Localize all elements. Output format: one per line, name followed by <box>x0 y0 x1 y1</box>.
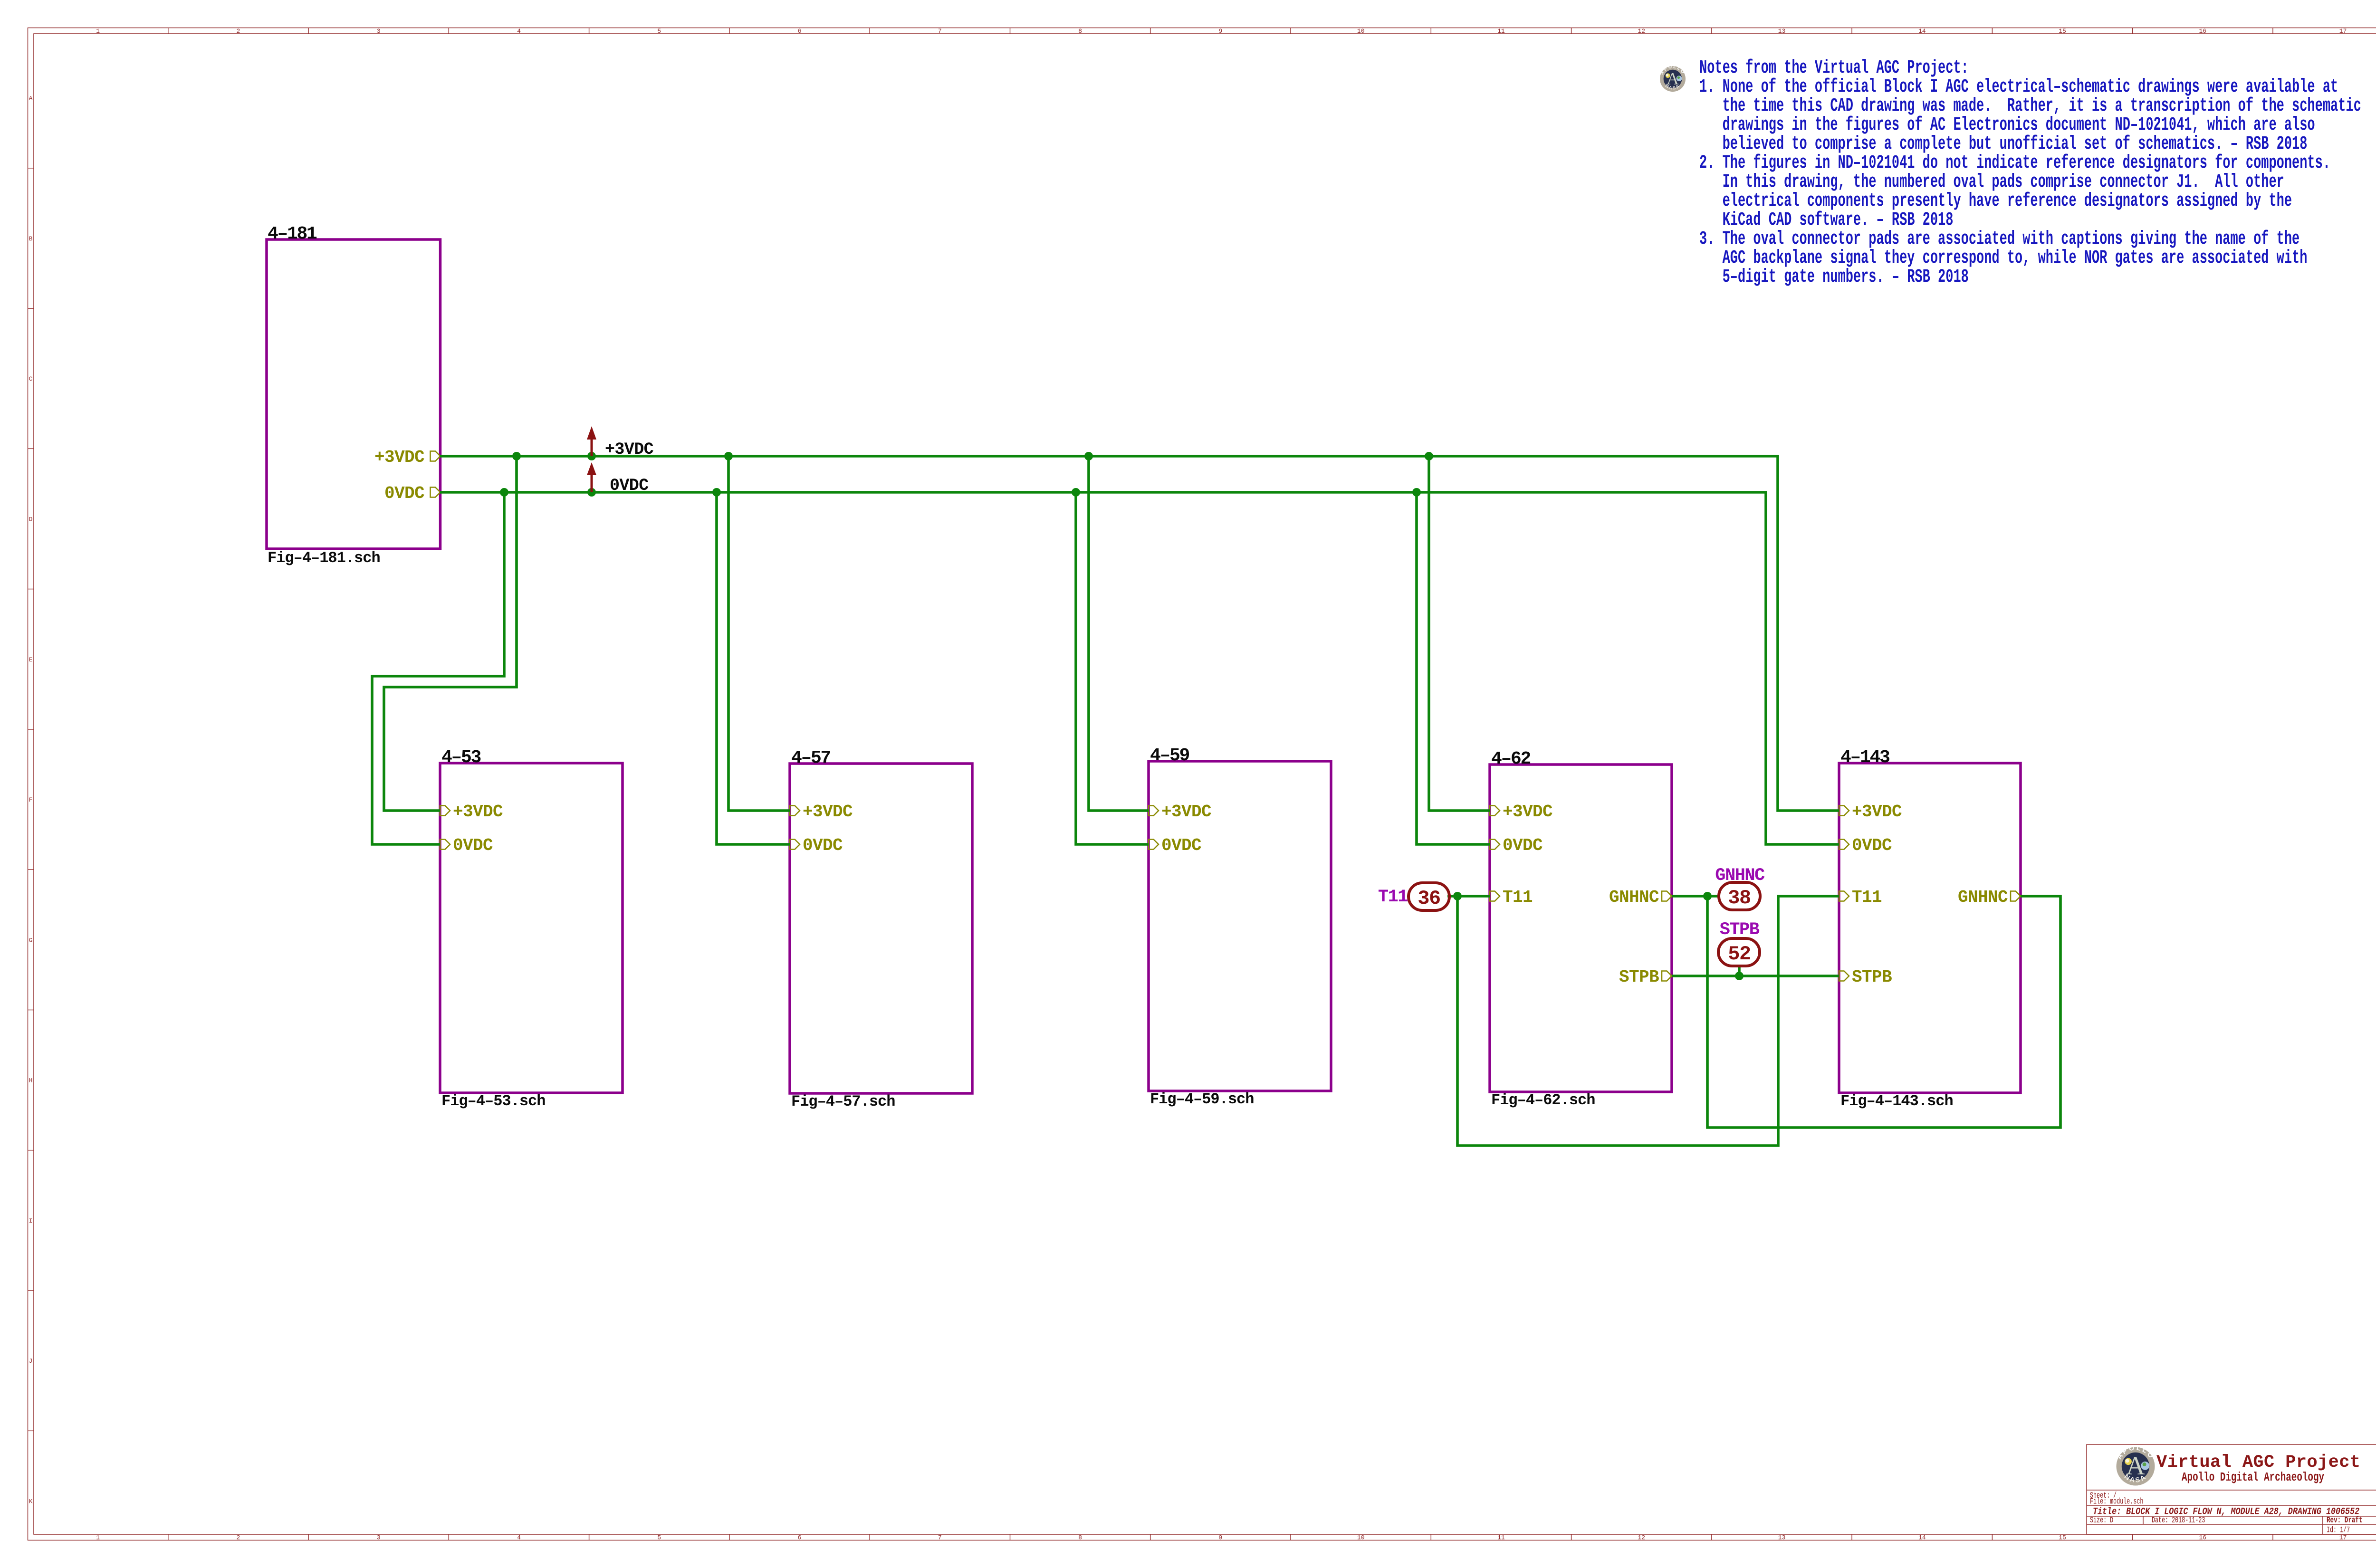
svg-text:electrical components presentl: electrical components presently have ref… <box>1699 191 2292 212</box>
wire 0VDC bus <box>440 492 1839 844</box>
sheet pin STPB of 4-62 (right edge) <box>1662 971 1672 981</box>
svg-text:+3VDC: +3VDC <box>1852 802 1902 822</box>
power symbol +3VDC <box>587 426 654 459</box>
svg-text:Rev: Draft: Rev: Draft <box>2327 1515 2363 1525</box>
svg-text:1: 1 <box>96 1534 100 1541</box>
svg-text:6: 6 <box>798 28 802 35</box>
wire STPB 4-62 to 4-143 <box>1672 975 1839 977</box>
junction node STPB <box>1735 972 1744 980</box>
sheet pin +3VDC of 4-59 <box>1149 806 1159 816</box>
svg-text:the time this CAD drawing was: the time this CAD drawing was made. Rath… <box>1699 96 2361 117</box>
wire +3VDC to 4-62 <box>1429 456 1490 811</box>
svg-text:STPB: STPB <box>1720 920 1760 940</box>
svg-text:2. The figures in ND–1021041 d: 2. The figures in ND–1021041 do not indi… <box>1699 153 2330 174</box>
svg-text:10: 10 <box>1357 28 1365 35</box>
wire 0VDC to 4-59 <box>1076 492 1149 844</box>
wire GNHNC 4-62 to oval 38 <box>1672 895 1719 898</box>
wire T11 loop to 4-143 <box>1457 896 1839 1146</box>
svg-text:16: 16 <box>2199 28 2206 35</box>
junction 0VDC at 4-57 drop <box>712 488 721 497</box>
svg-text:0VDC: 0VDC <box>384 484 424 503</box>
svg-text:drawings in the figures of AC: drawings in the figures of AC Electronic… <box>1699 115 2315 136</box>
junction +3VDC at power flag <box>587 452 596 460</box>
svg-text:STPB: STPB <box>1852 967 1892 987</box>
svg-text:9: 9 <box>1218 28 1222 35</box>
svg-text:38: 38 <box>1728 887 1750 909</box>
svg-text:14: 14 <box>1918 28 1926 35</box>
svg-text:4–57: 4–57 <box>791 748 831 768</box>
svg-text:0VDC: 0VDC <box>610 476 649 495</box>
junction 0VDC at 4-53 drop <box>500 488 508 497</box>
svg-text:Apollo Digital Archaeology: Apollo Digital Archaeology <box>2182 1470 2324 1484</box>
svg-text:12: 12 <box>1638 28 1645 35</box>
svg-text:KiCad CAD software. – RSB 2018: KiCad CAD software. – RSB 2018 <box>1699 210 1953 231</box>
sheet pin 0VDC of 4-143 <box>1839 840 1849 850</box>
sheet 4-62 <box>1490 749 1672 1109</box>
sheet pin 0VDC of 4-181 <box>431 488 441 497</box>
svg-text:11: 11 <box>1497 28 1505 35</box>
sheet pin 0VDC of 4-53 <box>440 840 450 850</box>
svg-text:5: 5 <box>657 1534 661 1541</box>
svg-text:Fig–4–57.sch: Fig–4–57.sch <box>791 1093 895 1110</box>
svg-text:17: 17 <box>2339 1534 2347 1541</box>
svg-text:C: C <box>29 375 33 382</box>
svg-text:+3VDC: +3VDC <box>374 448 424 467</box>
sheet pin T11 of 4-62 <box>1490 891 1500 901</box>
junction +3VDC at 4-62 drop <box>1425 452 1433 460</box>
junction node GNHNC <box>1703 892 1712 900</box>
connector pad oval 52 <box>1718 920 1760 966</box>
svg-text:5–digit gate numbers. – RSB 20: 5–digit gate numbers. – RSB 2018 <box>1699 267 1969 288</box>
svg-text:6: 6 <box>798 1534 802 1541</box>
sheet pin 0VDC of 4-62 <box>1490 840 1500 850</box>
svg-text:13: 13 <box>1778 1534 1786 1541</box>
svg-text:+3VDC: +3VDC <box>453 802 503 822</box>
svg-text:+3VDC: +3VDC <box>803 802 853 822</box>
sheet pin STPB of 4-143 <box>1839 971 1849 981</box>
svg-text:36: 36 <box>1418 887 1440 910</box>
svg-text:Fig–4–143.sch: Fig–4–143.sch <box>1840 1092 1953 1110</box>
sheet pin +3VDC of 4-181 <box>431 451 441 461</box>
svg-text:Size: D: Size: D <box>2090 1516 2113 1525</box>
junction 0VDC at 4-59 drop <box>1072 488 1080 497</box>
svg-text:D: D <box>29 516 33 523</box>
svg-text:15: 15 <box>2059 1534 2066 1541</box>
svg-text:1: 1 <box>96 28 100 35</box>
svg-text:4: 4 <box>517 28 521 35</box>
svg-text:12: 12 <box>1638 1534 1645 1541</box>
svg-text:Virtual AGC Project: Virtual AGC Project <box>2156 1453 2360 1472</box>
svg-text:5: 5 <box>657 28 661 35</box>
svg-text:4–181: 4–181 <box>268 224 317 244</box>
title block <box>2087 1444 2376 1535</box>
svg-text:+3VDC: +3VDC <box>1503 802 1552 822</box>
svg-text:8: 8 <box>1078 28 1082 35</box>
svg-text:GNHNC: GNHNC <box>1609 888 1659 907</box>
junction 0VDC at power flag <box>587 488 596 497</box>
svg-text:11: 11 <box>1497 1534 1505 1541</box>
wire +3VDC bus <box>440 456 1839 811</box>
sheet pin 0VDC of 4-57 <box>790 840 800 850</box>
svg-text:9: 9 <box>1218 1534 1222 1541</box>
junction +3VDC at 4-53 drop <box>512 452 521 460</box>
svg-text:believed to comprise a complet: believed to comprise a complete but unof… <box>1699 134 2307 155</box>
svg-text:K: K <box>29 1498 33 1505</box>
svg-text:2: 2 <box>236 1534 240 1541</box>
svg-text:0VDC: 0VDC <box>453 836 493 855</box>
svg-text:Date: 2018-11-23: Date: 2018-11-23 <box>2152 1516 2205 1525</box>
wire GNHNC loop to 4-143 <box>1707 896 2060 1128</box>
power symbol 0VDC <box>587 462 649 495</box>
svg-text:A: A <box>29 95 33 102</box>
sheet pin +3VDC of 4-53 <box>440 806 450 816</box>
svg-text:3: 3 <box>377 28 381 35</box>
sheet pin +3VDC of 4-143 <box>1839 806 1849 816</box>
svg-text:File: module.sch: File: module.sch <box>2090 1498 2143 1507</box>
wire T11 oval to 4-62 <box>1447 895 1490 898</box>
svg-text:1. None of the official Block: 1. None of the official Block I AGC elec… <box>1699 76 2338 98</box>
svg-text:F: F <box>29 796 33 803</box>
svg-text:In this drawing, the numbered: In this drawing, the numbered oval pads … <box>1699 172 2284 193</box>
svg-text:13: 13 <box>1778 28 1786 35</box>
wire 0VDC to 4-57 <box>717 492 790 844</box>
sheet pin +3VDC of 4-62 <box>1490 806 1500 816</box>
wire +3VDC to 4-53 <box>384 456 517 811</box>
svg-text:0VDC: 0VDC <box>1852 836 1892 855</box>
svg-text:Title: BLOCK I LOGIC FLOW N, M: Title: BLOCK I LOGIC FLOW N, MODULE A28,… <box>2093 1506 2359 1517</box>
svg-text:Fig–4–181.sch: Fig–4–181.sch <box>268 549 380 567</box>
svg-text:E: E <box>29 656 33 663</box>
Apollo patch logo (title block) <box>2116 1444 2156 1485</box>
junction +3VDC at 4-59 drop <box>1084 452 1093 460</box>
svg-text:16: 16 <box>2199 1534 2206 1541</box>
svg-text:Id: 1/7: Id: 1/7 <box>2327 1526 2350 1535</box>
svg-text:B: B <box>29 235 33 242</box>
connector pad oval 36 <box>1378 883 1449 910</box>
junction 0VDC at 4-62 drop <box>1412 488 1421 497</box>
sheet 4-57 <box>790 748 972 1110</box>
svg-text:52: 52 <box>1728 943 1750 966</box>
svg-text:4–53: 4–53 <box>441 747 481 768</box>
sheet 4-59 <box>1149 746 1331 1108</box>
svg-text:T11: T11 <box>1503 888 1533 907</box>
svg-text:8: 8 <box>1078 1534 1082 1541</box>
svg-text:7: 7 <box>938 28 942 35</box>
sheet pin GNHNC of 4-62 (right edge) <box>1662 891 1672 901</box>
svg-text:AGC backplane signal they corr: AGC backplane signal they correspond to,… <box>1699 248 2307 269</box>
junction +3VDC at 4-57 drop <box>724 452 733 460</box>
wire +3VDC to 4-59 <box>1089 456 1149 811</box>
svg-text:GNHNC: GNHNC <box>1715 866 1765 886</box>
svg-text:G: G <box>29 937 33 944</box>
sheet 4-143 <box>1839 747 2021 1110</box>
svg-text:4–62: 4–62 <box>1491 749 1531 769</box>
svg-text:+3VDC: +3VDC <box>605 440 654 459</box>
svg-text:3: 3 <box>377 1534 381 1541</box>
sheet 4-53 <box>440 747 623 1110</box>
wire 0VDC to 4-53 <box>372 492 504 844</box>
sheet pin +3VDC of 4-57 <box>790 806 800 816</box>
svg-text:17: 17 <box>2339 28 2347 35</box>
svg-text:4–59: 4–59 <box>1150 746 1189 766</box>
connector pad oval 38 <box>1715 866 1765 910</box>
svg-text:T11: T11 <box>1378 887 1408 907</box>
wire 0VDC to 4-62 <box>1417 492 1490 844</box>
svg-text:+3VDC: +3VDC <box>1161 802 1211 822</box>
svg-text:0VDC: 0VDC <box>1503 836 1542 855</box>
svg-text:H: H <box>29 1077 33 1084</box>
svg-text:J: J <box>29 1358 33 1365</box>
sheet 4-181 <box>267 224 441 567</box>
svg-text:Fig–4–59.sch: Fig–4–59.sch <box>1150 1090 1254 1108</box>
svg-text:3. The oval connector pads are: 3. The oval connector pads are associate… <box>1699 229 2299 250</box>
svg-text:2: 2 <box>236 28 240 35</box>
svg-text:14: 14 <box>1918 1534 1926 1541</box>
sheet pin GNHNC of 4-143 (right edge) <box>2011 891 2021 901</box>
Apollo patch logo (notes) <box>1659 64 1686 92</box>
svg-text:GNHNC: GNHNC <box>1958 888 2008 907</box>
svg-text:0VDC: 0VDC <box>1161 836 1201 855</box>
wire +3VDC to 4-57 <box>728 456 790 811</box>
svg-text:0VDC: 0VDC <box>803 836 843 855</box>
svg-text:I: I <box>29 1217 33 1224</box>
svg-text:T11: T11 <box>1852 888 1882 907</box>
junction node T11 <box>1453 892 1462 900</box>
svg-text:Fig–4–53.sch: Fig–4–53.sch <box>441 1092 545 1110</box>
svg-text:Fig–4–62.sch: Fig–4–62.sch <box>1491 1091 1595 1109</box>
wire STPB oval stub <box>1738 966 1741 976</box>
sheet pin T11 of 4-143 <box>1839 891 1849 901</box>
svg-text:10: 10 <box>1357 1534 1365 1541</box>
notes text block <box>1699 57 2361 288</box>
sheet pin 0VDC of 4-59 <box>1149 840 1159 850</box>
svg-text:Notes from the Virtual AGC Pro: Notes from the Virtual AGC Project: <box>1699 57 1969 79</box>
svg-text:7: 7 <box>938 1534 942 1541</box>
svg-text:15: 15 <box>2059 28 2066 35</box>
svg-text:STPB: STPB <box>1619 967 1659 987</box>
svg-text:4–143: 4–143 <box>1840 747 1889 768</box>
svg-text:4: 4 <box>517 1534 521 1541</box>
